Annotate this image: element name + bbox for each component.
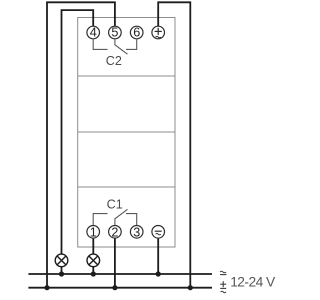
divider line 2 [78, 131, 175, 133]
wire terminal+ to lower rail [158, 2, 190, 287]
junction lamp E2 / upper rail [91, 271, 96, 276]
terminal 3 [130, 225, 143, 239]
junction terminal~ / upper rail [156, 271, 161, 276]
supply marker plusminus-tilde at lower rail [220, 281, 226, 293]
contact C2 fixed lead 6 [126, 39, 137, 50]
wire terminal2 to lower rail [114, 238, 116, 288]
svg-text:12-24 V: 12-24 V [230, 275, 276, 290]
device outline box [78, 18, 175, 248]
lamp E2 [87, 254, 100, 274]
svg-text:C1: C1 [107, 198, 123, 212]
wire terminal~ to upper rail [157, 238, 159, 274]
junction terminal2 wire / lower rail [112, 285, 117, 290]
svg-text:1: 1 [90, 225, 97, 239]
wire terminal5 to lower rail [47, 2, 115, 287]
terminal 6 [130, 26, 143, 40]
junction terminal+ wire / lower rail [188, 285, 193, 290]
junction lamp E1 / upper rail [59, 271, 64, 276]
contact C1 fixed lead 3 [126, 214, 137, 226]
svg-text:2: 2 [111, 225, 118, 239]
terminal 4 [87, 26, 100, 40]
contact C1 fixed lead 1 [93, 214, 107, 226]
lower supply rail [28, 287, 212, 289]
wire terminal4 to lamp E1 [62, 10, 94, 254]
contact C2 fixed lead 4 [93, 39, 107, 50]
divider line 1 [78, 75, 175, 77]
lamp E1 [55, 254, 68, 274]
svg-text:C2: C2 [106, 54, 122, 68]
terminal -~ [152, 226, 165, 239]
terminal 1 [87, 225, 100, 239]
contact C2 common blade 5 [115, 39, 128, 55]
junction terminal5 wire / lower rail [44, 285, 49, 290]
terminal 5 [109, 26, 122, 40]
supply marker minus-tilde at upper rail [220, 271, 226, 274]
divider line 3 [78, 186, 175, 188]
contact C1 common blade 2 [115, 209, 128, 226]
terminal 2 [109, 225, 122, 239]
svg-text:5: 5 [111, 26, 118, 40]
svg-text:6: 6 [133, 26, 140, 40]
wire terminal1 to lamp E2 [92, 238, 94, 254]
svg-text:3: 3 [133, 225, 140, 239]
upper supply rail [28, 273, 212, 275]
terminal +~ [152, 26, 165, 39]
svg-text:4: 4 [90, 26, 97, 40]
